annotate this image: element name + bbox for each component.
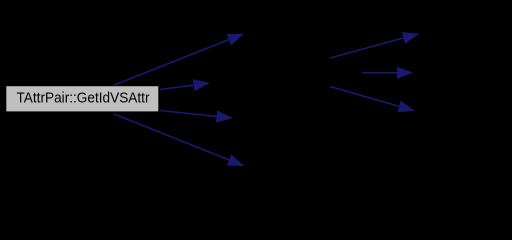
- edge D: GetIdVSAttr to lower callee: [114, 114, 243, 166]
- edge E: second-level node to upper-right callee: [330, 33, 418, 58]
- node TAttrPair::GetIdVSAttr: [6, 86, 158, 111]
- edge B: GetIdVSAttr to second callee: [160, 80, 209, 91]
- edge G: second-level node to lower-right callee: [330, 87, 414, 112]
- edge A: GetIdVSAttr to upper callee: [114, 34, 243, 85]
- svg-text:TAttrPair::GetIdVSAttr: TAttrPair::GetIdVSAttr: [17, 90, 150, 107]
- edge F: second-level node to middle-right callee: [362, 67, 412, 78]
- edge C: GetIdVSAttr to third callee: [160, 111, 232, 122]
